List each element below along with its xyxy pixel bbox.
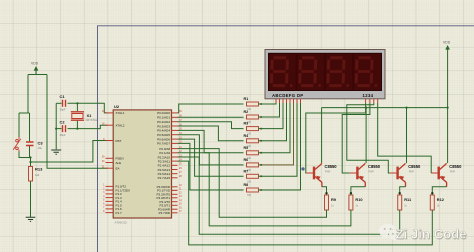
svg-text:P2.7/A15: P2.7/A15 (158, 176, 171, 180)
svg-text:R13: R13 (35, 167, 43, 172)
resistor R3 (244, 122, 259, 136)
wire R9 to P2.0 (178, 149, 327, 218)
resistor R6 (244, 158, 259, 172)
svg-text:CRYSTAL: CRYSTAL (86, 118, 98, 122)
node marker (301, 167, 304, 170)
svg-text:U2: U2 (114, 104, 120, 109)
svg-text:30pF: 30pF (60, 108, 66, 112)
wire R4 to segment D (259, 103, 287, 141)
resistor R11 (398, 195, 412, 210)
capacitor C1 (60, 94, 66, 112)
resistor R7 (244, 169, 259, 183)
svg-text:P0.1/AD1: P0.1/AD1 (157, 116, 170, 120)
wire R7 to segment G (259, 103, 298, 176)
svg-text:R11: R11 (404, 197, 412, 202)
resistor R12 (430, 195, 444, 210)
svg-text:10u: 10u (38, 146, 43, 150)
transistor Q4 (431, 163, 462, 187)
svg-text:R10: R10 (355, 197, 362, 202)
svg-text:R8: R8 (244, 183, 249, 187)
svg-text:R1: R1 (244, 97, 249, 101)
ground below R13 (26, 217, 36, 221)
resistor R9 (325, 195, 337, 210)
svg-text:10k: 10k (35, 173, 40, 177)
resistor R4 (244, 134, 259, 148)
svg-text:VDD: VDD (31, 62, 39, 66)
svg-text:XTAL1: XTAL1 (116, 111, 125, 115)
wire Q4 collector riser (447, 108, 449, 164)
U2 left pin ALE (30) (102, 160, 121, 165)
wire C2 left (56, 128, 61, 130)
resistor R1 (244, 97, 259, 111)
svg-text:P0.0/AD0: P0.0/AD0 (157, 111, 170, 115)
wire R5 to segment E (259, 103, 291, 153)
resistor R2 (244, 110, 259, 124)
svg-text:C1: C1 (60, 94, 66, 99)
svg-text:C8550: C8550 (368, 164, 381, 169)
wire Q4 emitter to R12 (432, 187, 446, 195)
power VDD1 (31, 62, 39, 75)
resistor R5 (244, 146, 259, 160)
svg-text:XTAL2: XTAL2 (116, 124, 125, 128)
wire C3 bottom (29, 147, 31, 158)
svg-text:330: 330 (247, 194, 252, 197)
junction dots at resistor outputs (260, 103, 262, 191)
wire button bottom (19, 152, 31, 158)
wire EA riser (47, 75, 108, 169)
wire C2 right to XTAL2 (68, 125, 108, 128)
wire left branch down (27, 75, 29, 114)
U2 right pins P0.0-P0.7 (172, 113, 178, 143)
wire R13 bottom to ground (30, 181, 32, 217)
wire R3 to segment C (259, 103, 284, 129)
U2 left pin RST (9) (103, 138, 122, 143)
wire Q3 emitter to R11 (400, 187, 406, 195)
svg-text:EA: EA (116, 167, 120, 171)
wire P0.7 to R8 (178, 143, 244, 190)
svg-text:C8550: C8550 (449, 164, 462, 169)
svg-text:R9: R9 (331, 197, 337, 202)
svg-text:1234: 1234 (363, 93, 374, 98)
wire VDD bridge (28, 74, 47, 76)
resistor R10 (349, 195, 363, 210)
svg-text:R2: R2 (244, 110, 249, 114)
wire C1 left (56, 102, 61, 104)
svg-text:C8550: C8550 (325, 164, 338, 169)
svg-text:C8550: C8550 (408, 164, 421, 169)
U2 right pins P2.0-P2.7 (172, 149, 178, 178)
wire C1 right to XTAL1 (68, 103, 108, 113)
display digit pins 1-4 (366, 99, 378, 103)
wire Q3 collector riser (406, 108, 408, 164)
svg-text:PNP: PNP (409, 169, 415, 173)
svg-text:P0.5/AD5: P0.5/AD5 (157, 133, 170, 137)
wire P0.1 to R2 (178, 116, 244, 118)
svg-text:Zi Jin Code: Zi Jin Code (396, 227, 467, 242)
wire crystal bottom (76, 121, 78, 129)
svg-text:ALE: ALE (116, 161, 122, 165)
wire Q1 emitter to R9 (322, 187, 327, 195)
svg-text:R6: R6 (244, 158, 249, 162)
svg-text:R5: R5 (244, 146, 249, 150)
svg-text:30pF: 30pF (60, 133, 66, 137)
svg-text:PNP: PNP (369, 169, 375, 173)
junction dots at R tops (325, 192, 433, 194)
wire P0.4 to R5 (178, 130, 244, 152)
transistor Q2 (350, 163, 381, 187)
wire P0.3 to R4 (178, 126, 244, 141)
svg-text:ABCDEFG DP: ABCDEFG DP (272, 93, 303, 98)
wire R8 to segment DP (259, 103, 301, 190)
7-segment display DS1 (265, 50, 385, 99)
MCU U2 (113, 104, 171, 225)
svg-text:R7: R7 (244, 169, 249, 173)
svg-text:X1: X1 (87, 113, 93, 118)
wire R13 top (30, 162, 32, 167)
U2 right pins P3.0-P3.7 (172, 187, 178, 213)
U2 left pin XTAL1 (19) (102, 110, 125, 115)
wire R2 to segment B (259, 103, 280, 117)
svg-text:C2: C2 (60, 119, 66, 124)
svg-text:PNP: PNP (325, 169, 331, 173)
transistor Q1 (306, 163, 337, 187)
push button (13, 137, 21, 152)
svg-text:RST: RST (116, 139, 122, 143)
svg-text:AT89C52: AT89C52 (115, 221, 128, 225)
wire P0.0 to R1 (178, 104, 244, 113)
wire R1 to segment A (259, 103, 277, 104)
wire RST net (31, 141, 108, 163)
ground near crystal (51, 150, 61, 154)
U2 left pins P1.0-P1.7 (106, 186, 114, 212)
crystal X1 (71, 112, 98, 122)
svg-text:P3.7/RD: P3.7/RD (159, 211, 171, 215)
sheet boundary (98, 26, 474, 252)
wire digit3 to Q3 base (347, 103, 390, 173)
U2 left pin PSEN (29) (102, 156, 124, 161)
svg-text:R3: R3 (244, 122, 249, 126)
svg-text:P0.7/AD7: P0.7/AD7 (157, 142, 170, 146)
junction dots left area (29, 102, 78, 163)
wire R11 to P2.2 (178, 157, 400, 234)
junction rail dots (365, 107, 449, 109)
resistor R8 (244, 183, 259, 197)
wire VDD shaft (447, 54, 449, 108)
wire P0.5 to R6 (178, 135, 244, 165)
wire crystal top (76, 103, 78, 111)
resistor R13 (29, 167, 44, 182)
svg-text:P0.3/AD3: P0.3/AD3 (157, 124, 170, 128)
watermark (379, 224, 467, 242)
svg-text:VDD: VDD (443, 41, 451, 45)
wire Q2 collector riser (365, 108, 367, 164)
wire digit4 to Q4 base (378, 103, 432, 173)
display segment pins (276, 99, 301, 103)
U2 left pin EA (31) (102, 166, 120, 171)
svg-text:PNP: PNP (450, 169, 456, 173)
wire cap column (55, 103, 57, 149)
wire button top (18, 113, 20, 137)
wire R6 to segment F (259, 103, 294, 165)
transistor Q3 (390, 163, 421, 187)
power VDD2 (443, 41, 451, 55)
capacitor C2 (60, 119, 66, 137)
wire split bar (19, 112, 30, 114)
svg-text:R12: R12 (437, 197, 445, 202)
wire R10 to P2.1 (178, 153, 351, 226)
svg-text:P1.7: P1.7 (116, 211, 123, 215)
wire P0.2 to R3 (178, 122, 244, 129)
svg-text:C3: C3 (38, 141, 44, 146)
wire P0.6 to R7 (178, 139, 244, 176)
wire Q1 collector riser (321, 108, 323, 164)
wire C3 top (29, 113, 31, 141)
wire digit1 to Q1 base (306, 103, 366, 173)
U2 left pin XTAL2 (18) (102, 123, 125, 128)
wire digit2 to Q2 base (342, 103, 370, 173)
wire emitter rail (322, 107, 448, 109)
capacitor C3 (26, 141, 43, 151)
wire R12 to P2.3 (178, 161, 433, 245)
wire Q2 emitter to R10 (351, 187, 365, 195)
